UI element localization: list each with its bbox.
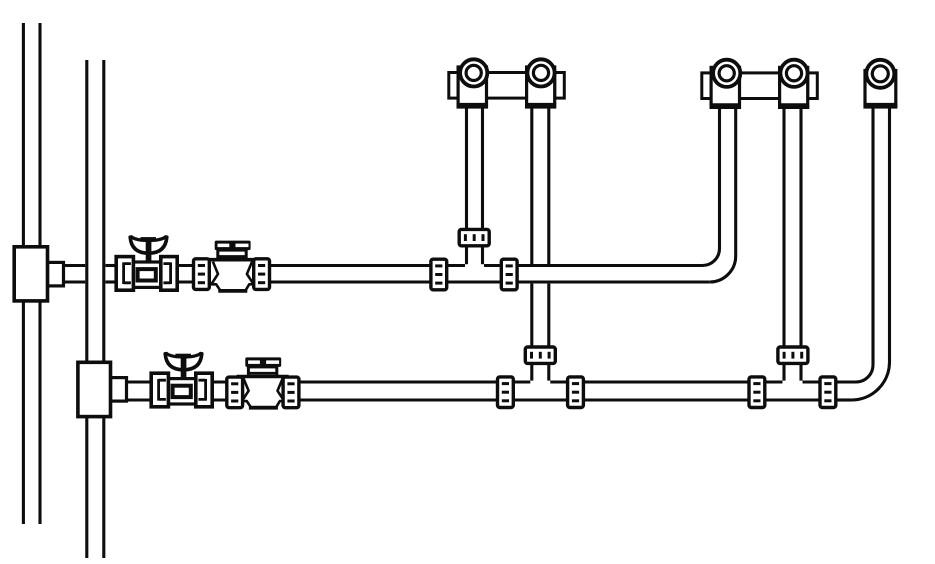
valve body <box>133 262 160 287</box>
coupling at globe valve G1 outlet <box>254 259 270 290</box>
wire: lower horizontal branch line (bottom wall) <box>126 398 852 401</box>
riser 5 (to single fixture at far right) <box>873 107 890 365</box>
stop valve V2 (wing handle) on lower branch <box>151 354 212 407</box>
coupling on upper branch left of tee <box>431 259 447 290</box>
board end tab left <box>449 73 458 99</box>
riser 3 (to second fixture pair, left unit) <box>720 107 736 256</box>
left union flange <box>116 257 133 291</box>
bonnet <box>218 250 246 259</box>
coupling on lower branch right of tee 3 <box>568 377 584 408</box>
coupling at globe valve G2 outlet <box>283 377 299 408</box>
supply pipe P2 (second vertical main) <box>87 60 104 558</box>
globe valve G1 on upper branch <box>206 241 258 293</box>
wire: upper horizontal branch line (bottom wall) <box>63 280 710 283</box>
riser 1 (to first fixture pair, left unit) <box>467 107 483 264</box>
globe valve G2 on lower branch <box>237 357 289 409</box>
right outlet circle <box>527 59 554 86</box>
single fixture stub-out (far right) <box>864 60 898 107</box>
coupling on lower branch left of tee 3 <box>498 377 514 408</box>
handle bar <box>215 241 251 251</box>
coupling at globe valve G2 inlet <box>227 377 243 408</box>
wire: lower horizontal branch line (top wall) <box>126 380 856 383</box>
mounting board between units <box>487 73 529 99</box>
body outline strokes <box>206 260 258 291</box>
handle wing <box>130 237 167 253</box>
right union flange <box>161 257 177 291</box>
coupling on riser 1 <box>459 229 489 245</box>
elbow: upper branch turns up into riser 3 <box>703 249 736 283</box>
board end tab right <box>555 73 565 99</box>
right elbow body <box>527 67 555 107</box>
handle stem <box>146 238 152 263</box>
coupling on upper branch right of tee <box>501 259 517 290</box>
stop valve V1 (wing handle) on upper branch <box>116 237 177 290</box>
elbow: lower branch turns up into riser 5 <box>852 362 890 400</box>
left outlet circle <box>460 59 487 86</box>
riser 2 (to first fixture pair, right unit; crosses upper branch) <box>532 107 549 381</box>
tee T2 on pipe P2 feeding lower branch <box>78 362 127 416</box>
coupling on lower branch left of tee 4 <box>749 377 765 408</box>
fixture pair 2 (twin stub-out elbows on mounting board) <box>702 60 818 108</box>
coupling on lower branch right of tee 4 <box>820 377 836 408</box>
body silhouette <box>206 258 258 292</box>
coupling at globe valve G1 inlet <box>194 259 210 290</box>
wire: upper horizontal branch line (top wall) <box>63 264 703 267</box>
riser 4 (to second fixture pair, right unit) <box>784 107 801 381</box>
tee T1 on pipe P1 feeding upper branch <box>14 247 63 301</box>
fixture pair 1 (twin stub-out elbows on mounting board) <box>449 59 565 107</box>
supply pipe P1 (far left vertical main) <box>23 23 40 524</box>
left elbow body <box>458 67 486 107</box>
coupling on riser 2 <box>525 347 555 363</box>
coupling on riser 4 <box>778 347 808 363</box>
